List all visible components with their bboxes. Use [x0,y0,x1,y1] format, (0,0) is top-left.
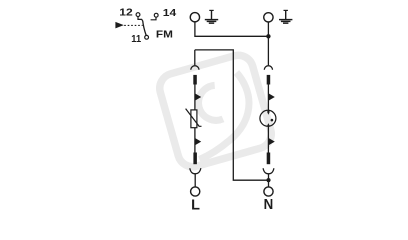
direction triangle lower left [195,138,201,145]
bypass wire varistor-top to N-bottom [195,50,268,180]
FM actuation dashed link [124,24,142,26]
junction node top [266,34,270,38]
watermark glyph left arc [199,85,223,120]
wire GDT to lower bar [267,125,269,152]
junction node bottom [266,178,270,182]
wire bar to GDT [267,84,269,111]
FM contact terminal circle 14 [154,13,158,17]
top terminal circle PE2 [264,13,273,22]
GDT lower electrode arrow [267,123,270,126]
watermark logo rounded square [156,52,275,171]
wire bar to varistor [194,84,196,110]
svg-text:14: 14 [163,8,177,19]
terminal circle L [191,187,200,196]
wire socket to L terminal [194,174,196,187]
left branch: wire top node down [194,50,196,65]
varistor body [191,110,197,128]
wire varistor to lower bar [194,128,196,153]
wire PE2 down to GDT branch [267,22,269,65]
FM contact terminal circle 11 [145,35,149,39]
FM contact terminal circle 12 [136,13,140,17]
left plug pin bottom (bar) [193,153,197,165]
watermark glyph hook [200,73,250,160]
terminal circle N [264,187,273,196]
ground symbol 1 [205,10,218,23]
FM fixed contact 14 [151,17,156,20]
direction triangle lower right [269,138,275,145]
varistor diagonal [186,109,202,127]
wire socket to N terminal [268,174,270,187]
gas discharge tube circle [260,110,276,126]
FM moving contact lever [143,21,147,36]
right plug socket bottom [263,168,274,174]
svg-text:FM: FM [156,30,173,41]
left plug socket bottom [190,168,201,174]
right plug pin bottom (bar) [267,153,271,165]
left plug pin top (bar) [193,75,197,85]
wire PE1 to top rail [195,22,269,36]
GDT gas dot [271,119,274,122]
svg-text:N: N [264,197,274,213]
right plug pin top (bar) [267,75,271,85]
svg-text:11: 11 [131,34,141,45]
left plug socket top [191,66,199,70]
svg-text:12: 12 [119,8,133,19]
direction triangle upper left [195,94,201,101]
FM fixed contact 12 [138,17,143,21]
ground symbol 2 [279,10,292,23]
right branch: plug socket top [264,66,272,70]
direction triangle upper right [269,94,275,101]
svg-text:L: L [191,198,200,214]
GDT upper electrode arrow [267,111,270,114]
FM actuation triangle [115,22,123,29]
top terminal circle PE1 [190,13,199,22]
